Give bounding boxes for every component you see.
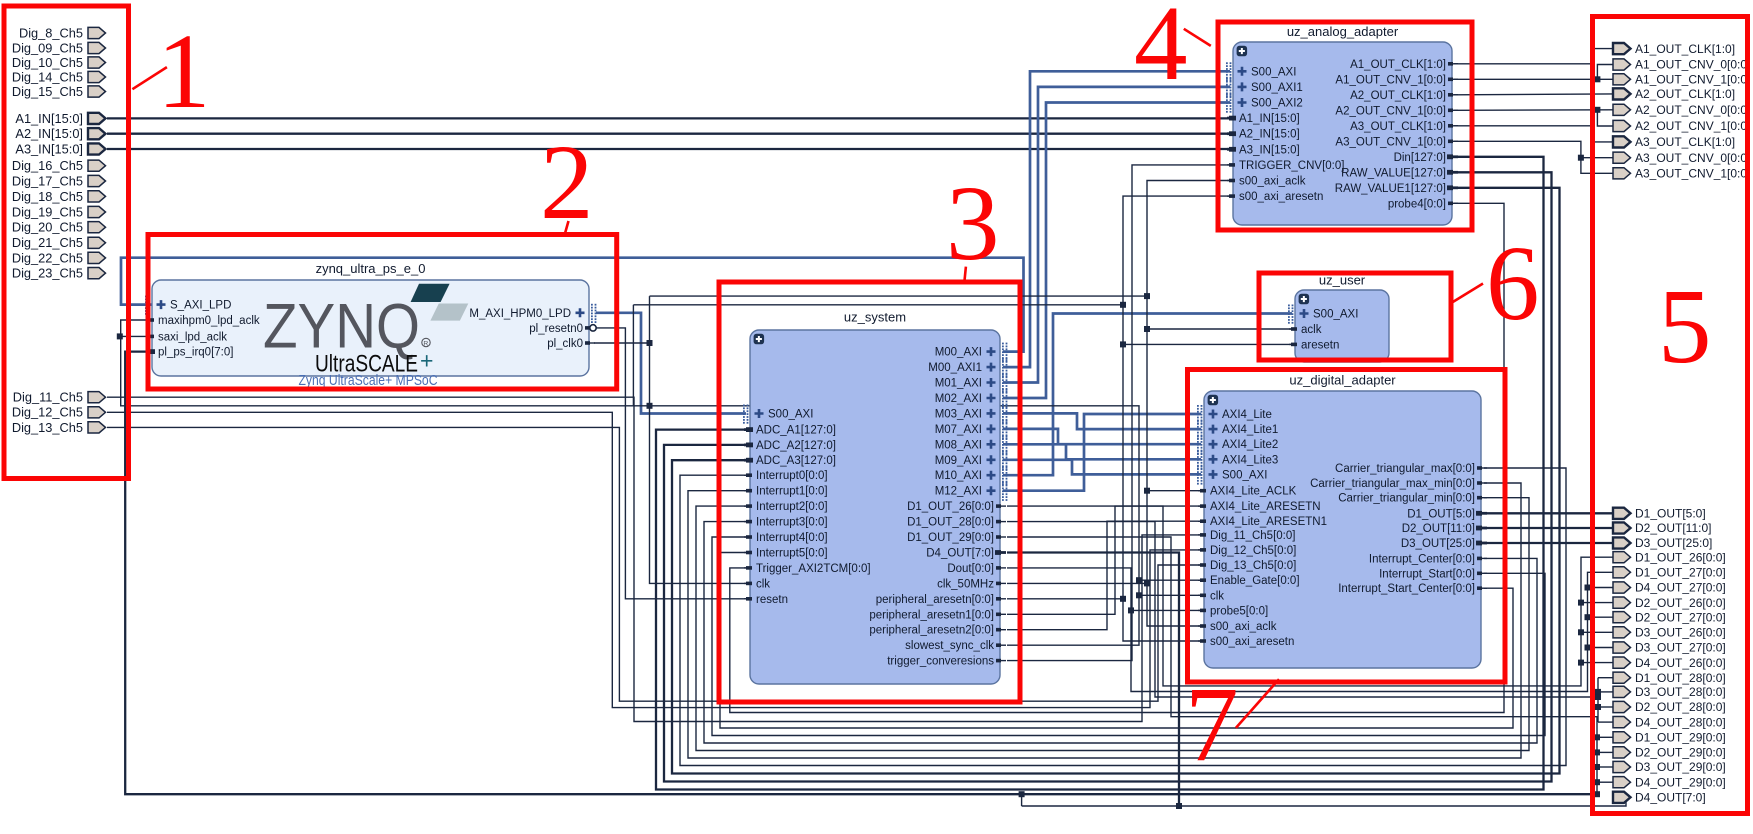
svg-text:Interrupt0[0:0]: Interrupt0[0:0] xyxy=(756,470,828,482)
svg-text:A2_OUT_CNV_0[0:0]: A2_OUT_CNV_0[0:0] xyxy=(1635,103,1750,117)
wire probe5 tee xyxy=(1131,609,1201,611)
output port D1_OUT[5:0] xyxy=(1613,507,1706,521)
wire group29 tee D2_OUT_29 xyxy=(1597,751,1613,753)
pin digital Enable_Gate[0:0] xyxy=(1198,575,1300,587)
svg-text:Trigger_AXI2TCM[0:0]: Trigger_AXI2TCM[0:0] xyxy=(756,563,871,575)
wire Carrier_triangular_max_min to Interrupt1 xyxy=(688,483,1521,758)
output port D3_OUT_29[0:0] xyxy=(1613,760,1726,774)
svg-text:TRIGGER_CNV[0:0]: TRIGGER_CNV[0:0] xyxy=(1239,160,1344,172)
pin M03_AXI xyxy=(935,404,1008,423)
input port Dig_19_Ch5 xyxy=(12,204,106,219)
svg-text:peripheral_aresetn2[0:0]: peripheral_aresetn2[0:0] xyxy=(869,625,994,637)
svg-text:s00_axi_aresetn: s00_axi_aresetn xyxy=(1210,636,1294,648)
junction g26 c xyxy=(1578,660,1584,666)
wire A1_OUT_CNV_0 branch xyxy=(1597,65,1613,80)
wire A2_OUT_CLK xyxy=(1454,93,1613,96)
wire A2_OUT_CNV_1 branch xyxy=(1597,110,1613,126)
junction A1 cnv xyxy=(1594,76,1600,82)
pin maxihpm0_lpd_aclk xyxy=(146,315,260,327)
svg-text:Dig_23_Ch5: Dig_23_Ch5 xyxy=(12,266,83,281)
junction g29 h xyxy=(1594,734,1600,740)
pin analog s00_axi_aresetn xyxy=(1227,191,1323,203)
svg-text:D4_OUT_29[0:0]: D4_OUT_29[0:0] xyxy=(1635,775,1726,789)
pin digital AXI4_Lite3 xyxy=(1197,450,1278,469)
svg-text:A1_IN[15:0]: A1_IN[15:0] xyxy=(15,111,83,126)
svg-text:S00_AXI2: S00_AXI2 xyxy=(1251,98,1303,110)
svg-text:AXI4_Lite: AXI4_Lite xyxy=(1222,409,1272,421)
wire pl_clk0 net xyxy=(594,342,650,344)
output port D3_OUT_26[0:0] xyxy=(1613,626,1726,640)
svg-text:D3_OUT_26[0:0]: D3_OUT_26[0:0] xyxy=(1635,626,1726,640)
svg-text:Dig_10_Ch5: Dig_10_Ch5 xyxy=(12,55,83,70)
pin analog TRIGGER_CNV[0:0] xyxy=(1227,160,1344,172)
pin analog S00_AXI2 xyxy=(1226,94,1303,113)
input port A2_IN[15:0] xyxy=(15,126,105,141)
wire M00_AXI1 to analog S00_AXI xyxy=(1003,71,1230,367)
svg-text:D1_OUT_28[0:0]: D1_OUT_28[0:0] xyxy=(1635,671,1726,685)
svg-text:Carrier_triangular_max[0:0]: Carrier_triangular_max[0:0] xyxy=(1335,463,1475,475)
pin user aresetn xyxy=(1289,339,1339,351)
wire M07_AXI to AXI4_Lite2 xyxy=(1003,429,1201,444)
input port Dig_16_Ch5 xyxy=(12,158,106,173)
svg-text:Interrupt5[0:0]: Interrupt5[0:0] xyxy=(756,548,828,560)
junction g28 join xyxy=(1595,694,1601,700)
output port D4_OUT_29[0:0] xyxy=(1613,775,1726,789)
pin digital Carrier_triangular_max[0:0] xyxy=(1335,463,1487,475)
junction g28 b xyxy=(1595,704,1601,710)
svg-text:resetn: resetn xyxy=(756,594,788,606)
svg-text:D3_OUT[25:0]: D3_OUT[25:0] xyxy=(1635,536,1712,550)
svg-text:D1_OUT_26[0:0]: D1_OUT_26[0:0] xyxy=(1635,550,1726,564)
wire Dout to D27 group xyxy=(1007,568,1613,692)
wire A2_IN bus xyxy=(107,133,1230,135)
pin analog Din[127:0] xyxy=(1394,152,1458,164)
pin trigger_converesions xyxy=(887,656,1006,668)
pin peripheral_aresetn1[0:0] xyxy=(869,609,1006,621)
pin analog probe4[0:0] xyxy=(1388,198,1458,210)
svg-text:D4_OUT_26[0:0]: D4_OUT_26[0:0] xyxy=(1635,656,1726,670)
pin clk xyxy=(744,578,770,590)
output port D2_OUT_29[0:0] xyxy=(1613,746,1726,760)
svg-text:zynq_ultra_ps_e_0: zynq_ultra_ps_e_0 xyxy=(316,261,426,276)
svg-text:A1_OUT_CNV_1[0:0]: A1_OUT_CNV_1[0:0] xyxy=(1335,74,1446,86)
svg-text:D1_OUT[5:0]: D1_OUT[5:0] xyxy=(1635,507,1706,521)
svg-text:AXI4_Lite2: AXI4_Lite2 xyxy=(1222,439,1278,451)
pin peripheral_aresetn[0:0] xyxy=(876,594,1006,606)
wire RAW_VALUE1 to ADC_A3 xyxy=(672,188,1560,774)
wire pl_ps_irq0 long xyxy=(125,352,1597,795)
pin M02_AXI xyxy=(935,389,1008,408)
pin analog RAW_VALUE[127:0] xyxy=(1341,167,1458,179)
wire group27 tee D3_OUT_27 xyxy=(1588,647,1614,649)
svg-text:Dig_11_Ch5[0:0]: Dig_11_Ch5[0:0] xyxy=(1210,530,1295,542)
red box 1 xyxy=(4,6,129,479)
pin analog A2_OUT_CLK[1:0] xyxy=(1350,90,1458,102)
svg-text:Dig_09_Ch5: Dig_09_Ch5 xyxy=(12,40,83,55)
output port D1_OUT_28[0:0] xyxy=(1613,671,1726,685)
pin digital D3_OUT[25:0] xyxy=(1401,538,1487,550)
wire A3_OUT_CNV net xyxy=(1454,141,1613,173)
wire Interrupt_Start to Interrupt4 xyxy=(712,537,1545,736)
block uz_analog_adapter xyxy=(1233,24,1452,225)
junction g29 c xyxy=(1594,779,1600,785)
wire M12_AXI to AXI4_Lite xyxy=(1003,414,1201,491)
input port Dig_10_Ch5 xyxy=(12,55,106,70)
pin pl_ps_irq0 xyxy=(146,347,233,359)
pin pl_resetn0 xyxy=(529,323,596,335)
wire M09_AXI to digital S00_AXI xyxy=(1003,460,1201,475)
svg-text:aclk: aclk xyxy=(1301,324,1322,336)
wire aresetn distribution xyxy=(1123,196,1230,641)
svg-text:Dig_21_Ch5: Dig_21_Ch5 xyxy=(12,235,83,250)
junction D4 join xyxy=(1176,803,1182,809)
wire peripheral_aresetn feeder xyxy=(1007,598,1123,600)
output port D4_OUT_28[0:0] xyxy=(1613,715,1726,729)
pin M00_AXI1 xyxy=(928,358,1007,377)
input port Dig_15_Ch5 xyxy=(12,84,106,99)
wire A2_OUT_CNV net xyxy=(1454,109,1613,112)
junction g26 a xyxy=(1578,600,1584,606)
svg-text:s00_axi_aresetn: s00_axi_aresetn xyxy=(1239,191,1323,203)
wire M03_AXI to AXI4_Lite1 xyxy=(1003,413,1201,429)
pin M07_AXI xyxy=(935,420,1008,439)
wire pl_resetn0 to resetn xyxy=(592,328,748,599)
red box 7 xyxy=(1188,370,1506,683)
pin D1_OUT_28[0:0] xyxy=(907,517,1006,529)
svg-text:Interrupt2[0:0]: Interrupt2[0:0] xyxy=(756,501,828,513)
red leader 3 xyxy=(965,267,966,281)
wire aclk distribution xyxy=(1147,181,1230,627)
pin analog A3_OUT_CLK[1:0] xyxy=(1350,121,1458,133)
wire D28 group vertical xyxy=(1597,678,1599,722)
pin Trigger_AXI2TCM[0:0] xyxy=(744,563,871,575)
pin D1_OUT_26[0:0] xyxy=(907,501,1006,513)
output port D3_OUT_27[0:0] xyxy=(1613,641,1726,655)
wire M01_AXI to analog S00_AXI1 xyxy=(1003,87,1230,383)
pin analog A3_OUT_CNV_1[0:0] xyxy=(1335,136,1458,148)
junction aresetn join xyxy=(1120,596,1126,602)
wire Interrupt_Start_Center to Interrupt5 xyxy=(720,553,1513,729)
input port Dig_22_Ch5 xyxy=(12,250,106,265)
pin digital D1_OUT[5:0] xyxy=(1407,508,1487,520)
svg-text:M00_AXI: M00_AXI xyxy=(935,347,982,359)
svg-text:RAW_VALUE1[127:0]: RAW_VALUE1[127:0] xyxy=(1335,183,1446,195)
svg-text:4: 4 xyxy=(1134,0,1188,103)
wire Dig_11_Ch5 route xyxy=(107,397,1201,721)
junction saxi aclk xyxy=(117,333,123,339)
svg-text:peripheral_aresetn1[0:0]: peripheral_aresetn1[0:0] xyxy=(869,609,994,621)
svg-text:Carrier_triangular_min[0:0]: Carrier_triangular_min[0:0] xyxy=(1338,493,1475,505)
input port A1_IN[15:0] xyxy=(15,111,105,126)
wire group29 tee D3_OUT_29 xyxy=(1597,766,1613,768)
pin ADC_A1[127:0] xyxy=(744,425,836,437)
svg-text:clk: clk xyxy=(756,578,770,590)
pin analog S00_AXI1 xyxy=(1226,78,1303,97)
output port A3_OUT_CNV_0[0:0] xyxy=(1613,151,1750,165)
pin slowest_sync_clk xyxy=(905,640,1006,652)
wire probe4 to Trigger_AXI2TCM xyxy=(730,203,1504,712)
pin digital Interrupt_Center[0:0] xyxy=(1369,553,1487,565)
svg-text:Dig_18_Ch5: Dig_18_Ch5 xyxy=(12,189,83,204)
svg-text:Din[127:0]: Din[127:0] xyxy=(1394,152,1446,164)
svg-text:Interrupt_Start_Center[0:0]: Interrupt_Start_Center[0:0] xyxy=(1338,583,1475,595)
pin digital AXI4_Lite2 xyxy=(1197,435,1278,454)
svg-text:ADC_A3[127:0]: ADC_A3[127:0] xyxy=(756,455,836,467)
pin pl_clk0 xyxy=(547,338,595,350)
pin analog A3_IN[15:0] xyxy=(1227,144,1300,156)
wire Din to ADC_A1 xyxy=(656,157,1544,790)
wire irq branch lower xyxy=(1021,794,1023,806)
wire enable gate tee xyxy=(1139,579,1201,581)
pin M10_AXI xyxy=(935,466,1008,485)
svg-text:A3_IN[15:0]: A3_IN[15:0] xyxy=(1239,144,1300,156)
svg-text:S_AXI_LPD: S_AXI_LPD xyxy=(170,300,231,312)
red box 6 xyxy=(1259,273,1451,360)
output port A1_OUT_CNV_0[0:0] xyxy=(1613,58,1750,72)
junction aclk user xyxy=(1144,326,1150,332)
pin digital AXI4_Lite1 xyxy=(1197,420,1278,439)
svg-text:7: 7 xyxy=(1185,666,1239,784)
pin digital AXI4_Lite_ARESETN1 xyxy=(1198,516,1327,528)
junction pl_clk0 tee xyxy=(647,340,653,346)
wire D1_OUT_29 route xyxy=(1007,537,1597,794)
pin digital D2_OUT[11:0] xyxy=(1402,523,1487,535)
junction aresetn user xyxy=(1120,341,1126,347)
pin digital Carrier_triangular_min[0:0] xyxy=(1338,493,1487,505)
junction aclk x296 xyxy=(1144,293,1150,299)
svg-text:Dig_12_Ch5[0:0]: Dig_12_Ch5[0:0] xyxy=(1210,545,1296,557)
svg-text:Dig_15_Ch5: Dig_15_Ch5 xyxy=(12,84,83,99)
svg-text:aresetn: aresetn xyxy=(1301,339,1339,351)
svg-text:Dig_16_Ch5: Dig_16_Ch5 xyxy=(12,158,83,173)
svg-text:D4_OUT_28[0:0]: D4_OUT_28[0:0] xyxy=(1635,715,1726,729)
pin analog A2_OUT_CNV_1[0:0] xyxy=(1335,105,1458,117)
junction probe5 xyxy=(1128,607,1134,613)
pin resetn xyxy=(744,594,788,606)
svg-text:M00_AXI1: M00_AXI1 xyxy=(928,362,982,374)
junction aresetn x305 xyxy=(1120,302,1126,308)
output port D1_OUT_29[0:0] xyxy=(1613,731,1726,745)
output port D4_OUT[7:0] xyxy=(1613,791,1706,805)
wire group26 tee D2_OUT_26 xyxy=(1581,602,1613,604)
wire aresetn tee to uz_user xyxy=(1123,343,1292,345)
pin saxi_lpd_aclk xyxy=(146,331,227,343)
svg-text:1: 1 xyxy=(157,13,211,131)
output port D1_OUT_26[0:0] xyxy=(1613,550,1726,564)
wire M02_AXI to analog S00_AXI2 xyxy=(1003,103,1230,399)
logo parallelogram dark xyxy=(411,284,450,302)
svg-text:M10_AXI: M10_AXI xyxy=(935,470,982,482)
svg-text:M01_AXI: M01_AXI xyxy=(935,378,982,390)
red box 3 xyxy=(719,282,1020,702)
output port A1_OUT_CLK[1:0] xyxy=(1613,42,1735,56)
svg-text:2: 2 xyxy=(540,124,594,242)
svg-text:uz_system: uz_system xyxy=(844,310,906,325)
pin M12_AXI xyxy=(935,482,1008,501)
wire D1_OUT bus xyxy=(1484,512,1613,514)
svg-text:A2_OUT_CLK[1:0]: A2_OUT_CLK[1:0] xyxy=(1635,87,1735,101)
svg-text:A3_OUT_CNV_1[0:0]: A3_OUT_CNV_1[0:0] xyxy=(1635,167,1750,181)
svg-text:D2_OUT_26[0:0]: D2_OUT_26[0:0] xyxy=(1635,596,1726,610)
svg-text:5: 5 xyxy=(1658,268,1712,386)
svg-text:D3_OUT_27[0:0]: D3_OUT_27[0:0] xyxy=(1635,641,1726,655)
pin D1_OUT_29[0:0] xyxy=(907,532,1006,544)
junction enable gate xyxy=(1136,577,1142,583)
svg-text:A3_OUT_CNV_1[0:0]: A3_OUT_CNV_1[0:0] xyxy=(1335,136,1446,148)
wire group28 tee D3_OUT_28 xyxy=(1598,691,1613,693)
svg-text:S00_AXI: S00_AXI xyxy=(768,409,813,421)
svg-text:D4_OUT[7:0]: D4_OUT[7:0] xyxy=(1635,791,1706,805)
pin digital S00_AXI xyxy=(1197,465,1267,484)
svg-text:maxihpm0_lpd_aclk: maxihpm0_lpd_aclk xyxy=(158,315,260,327)
wire A3_OUT_CNV_0 branch xyxy=(1581,157,1613,159)
pin digital probe5[0:0] xyxy=(1198,605,1268,617)
pin Interrupt0[0:0] xyxy=(744,470,828,482)
svg-text:pl_clk0: pl_clk0 xyxy=(547,338,583,350)
svg-text:RAW_VALUE[127:0]: RAW_VALUE[127:0] xyxy=(1341,167,1446,179)
red leader 1 xyxy=(132,67,167,89)
wire Dig_13_Ch5 route xyxy=(107,427,1201,701)
input port Dig_23_Ch5 xyxy=(12,266,106,281)
svg-text:M03_AXI: M03_AXI xyxy=(935,408,982,420)
svg-text:D1_OUT_27[0:0]: D1_OUT_27[0:0] xyxy=(1635,566,1726,580)
pin Interrupt2[0:0] xyxy=(744,501,828,513)
svg-text:M08_AXI: M08_AXI xyxy=(935,439,982,451)
wire Dig_12_Ch5 route xyxy=(107,412,1201,707)
wire A1_IN bus xyxy=(107,117,1230,119)
pin analog RAW_VALUE1[127:0] xyxy=(1335,183,1458,195)
svg-text:Dig_11_Ch5: Dig_11_Ch5 xyxy=(13,390,83,405)
red leader 4 xyxy=(1184,29,1211,46)
output port D1_OUT_27[0:0] xyxy=(1613,566,1726,580)
svg-text:Dig_14_Ch5: Dig_14_Ch5 xyxy=(12,69,83,84)
svg-text:6: 6 xyxy=(1486,225,1540,343)
junction A3 cnv xyxy=(1578,155,1584,161)
svg-text:AXI4_Lite1: AXI4_Lite1 xyxy=(1222,424,1278,436)
pin digital AXI4_Lite_ARESETN xyxy=(1198,501,1321,513)
wire Carrier_triangular_max to Interrupt0 xyxy=(680,468,1566,766)
wire group26 tee D4_OUT_26 xyxy=(1581,662,1613,664)
svg-text:ADC_A2[127:0]: ADC_A2[127:0] xyxy=(756,440,836,452)
junction g29 b xyxy=(1594,764,1600,770)
svg-text:Interrupt3[0:0]: Interrupt3[0:0] xyxy=(756,517,828,529)
wire group27 tee D2_OUT_27 xyxy=(1588,616,1614,618)
pin digital Dig_12_Ch5[0:0] xyxy=(1198,545,1296,557)
svg-text:M_AXI_HPM0_LPD: M_AXI_HPM0_LPD xyxy=(469,308,571,320)
svg-text:Interrupt_Start[0:0]: Interrupt_Start[0:0] xyxy=(1379,568,1475,580)
svg-text:A1_OUT_CLK[1:0]: A1_OUT_CLK[1:0] xyxy=(1350,59,1446,71)
svg-text:D3_OUT_29[0:0]: D3_OUT_29[0:0] xyxy=(1635,760,1726,774)
svg-text:AXI4_Lite_ACLK: AXI4_Lite_ACLK xyxy=(1210,486,1297,498)
wire maxihpm aresetn link xyxy=(632,305,634,406)
junction A2 cnv xyxy=(1594,107,1600,113)
pin ADC_A2[127:0] xyxy=(744,440,836,452)
svg-text:Interrupt_Center[0:0]: Interrupt_Center[0:0] xyxy=(1369,553,1475,565)
svg-text:slowest_sync_clk: slowest_sync_clk xyxy=(905,640,994,652)
svg-text:ADC_A1[127:0]: ADC_A1[127:0] xyxy=(756,425,836,437)
junction digital clk xyxy=(1136,592,1142,598)
red box 5 xyxy=(1593,17,1748,814)
input port Dig_09_Ch5 xyxy=(12,40,106,55)
pin user aclk xyxy=(1289,324,1322,336)
svg-text:Dig_20_Ch5: Dig_20_Ch5 xyxy=(12,220,83,235)
pin digital s00_axi_aresetn xyxy=(1198,636,1294,648)
input port Dig_20_Ch5 xyxy=(12,220,106,235)
svg-text:Dig_13_Ch5: Dig_13_Ch5 xyxy=(12,420,83,435)
wire aclk tee to AXI4_Lite_ACLK xyxy=(1147,490,1201,492)
output port D3_OUT[25:0] xyxy=(1613,536,1712,550)
junction aclk lite xyxy=(1144,488,1150,494)
block zynq_ultra_ps_e_0 xyxy=(152,261,589,376)
pin Interrupt3[0:0] xyxy=(744,517,828,529)
output port A1_OUT_CNV_1[0:0] xyxy=(1613,73,1750,87)
pin M01_AXI xyxy=(935,374,1008,393)
input port Dig_14_Ch5 xyxy=(12,69,106,84)
pin digital Interrupt_Start[0:0] xyxy=(1379,568,1487,580)
svg-text:peripheral_aresetn[0:0]: peripheral_aresetn[0:0] xyxy=(876,594,994,606)
svg-text:M07_AXI: M07_AXI xyxy=(935,424,982,436)
pin peripheral_aresetn2[0:0] xyxy=(869,625,1006,637)
pin D4_OUT[7:0] xyxy=(926,548,1006,560)
svg-text:A1_OUT_CLK[1:0]: A1_OUT_CLK[1:0] xyxy=(1635,42,1735,56)
output port A2_OUT_CNV_1[0:0] xyxy=(1613,119,1750,133)
svg-text:M12_AXI: M12_AXI xyxy=(935,486,982,498)
wire maxihpm0_lpd_aclk branch xyxy=(121,320,1139,645)
input port Dig_17_Ch5 xyxy=(12,173,106,188)
pin M09_AXI xyxy=(935,451,1008,470)
svg-text:D1_OUT_29[0:0]: D1_OUT_29[0:0] xyxy=(907,532,994,544)
pin digital Carrier_triangular_max_min[0:0] xyxy=(1310,478,1487,490)
wire group28 head D1_OUT_28 xyxy=(1598,677,1613,679)
svg-text:A3_OUT_CNV_0[0:0]: A3_OUT_CNV_0[0:0] xyxy=(1635,151,1750,165)
red leader 2 xyxy=(565,221,569,233)
red leader 7 xyxy=(1236,679,1279,728)
junction g27 a xyxy=(1585,585,1591,591)
svg-text:S00_AXI: S00_AXI xyxy=(1313,309,1358,321)
svg-text:D3_OUT[25:0]: D3_OUT[25:0] xyxy=(1401,538,1475,550)
input port Dig_12_Ch5 xyxy=(12,405,106,420)
svg-text:A2_OUT_CNV_1[0:0]: A2_OUT_CNV_1[0:0] xyxy=(1335,105,1446,117)
pin digital Dig_13_Ch5[0:0] xyxy=(1198,560,1296,572)
junction g27 b xyxy=(1585,614,1591,620)
svg-text:D2_OUT[11:0]: D2_OUT[11:0] xyxy=(1635,521,1711,535)
svg-text:D4_OUT[7:0]: D4_OUT[7:0] xyxy=(926,548,994,560)
svg-text:Dig_22_Ch5: Dig_22_Ch5 xyxy=(12,250,83,265)
wire group27 tee D4_OUT_27 xyxy=(1588,587,1614,589)
wire M00_AXI to S_AXI_LPD xyxy=(121,258,1024,352)
output port D3_OUT_28[0:0] xyxy=(1613,685,1726,699)
pin Dout[0:0] xyxy=(947,563,1006,575)
svg-text:A1_IN[15:0]: A1_IN[15:0] xyxy=(1239,113,1300,125)
wire group28 tee D2_OUT_28 xyxy=(1598,706,1613,708)
wire clk trunk vertical xyxy=(650,296,749,583)
wire trigger_converesions to TRIGGER_CNV xyxy=(1007,165,1230,661)
output port A3_OUT_CNV_1[0:0] xyxy=(1613,167,1750,181)
output port D2_OUT_26[0:0] xyxy=(1613,596,1726,610)
svg-text:AXI4_Lite_ARESETN: AXI4_Lite_ARESETN xyxy=(1210,501,1321,513)
svg-text:Zynq UltraScale+ MPSoC: Zynq UltraScale+ MPSoC xyxy=(299,372,438,389)
svg-text:D2_OUT[11:0]: D2_OUT[11:0] xyxy=(1402,523,1475,535)
wire RAW_VALUE to ADC_A2 xyxy=(664,172,1552,781)
svg-text:s00_axi_aclk: s00_axi_aclk xyxy=(1210,621,1277,633)
wire Carrier_triangular_min to Interrupt2 xyxy=(696,498,1529,751)
junction g28 a xyxy=(1595,689,1601,695)
wire group26 tee D3_OUT_26 xyxy=(1581,631,1613,633)
svg-text:S00_AXI: S00_AXI xyxy=(1251,66,1296,78)
pin analog A1_OUT_CLK[1:0] xyxy=(1350,59,1458,71)
svg-text:M09_AXI: M09_AXI xyxy=(935,455,982,467)
wire group29 head D1_OUT_29 xyxy=(1597,736,1613,738)
